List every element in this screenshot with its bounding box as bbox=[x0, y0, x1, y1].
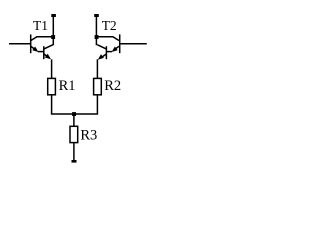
svg-text:R2: R2 bbox=[104, 78, 121, 94]
svg-text:T2: T2 bbox=[102, 18, 117, 33]
svg-text:R3: R3 bbox=[80, 128, 97, 144]
svg-text:R1: R1 bbox=[59, 78, 76, 94]
svg-text:T1: T1 bbox=[33, 18, 48, 33]
